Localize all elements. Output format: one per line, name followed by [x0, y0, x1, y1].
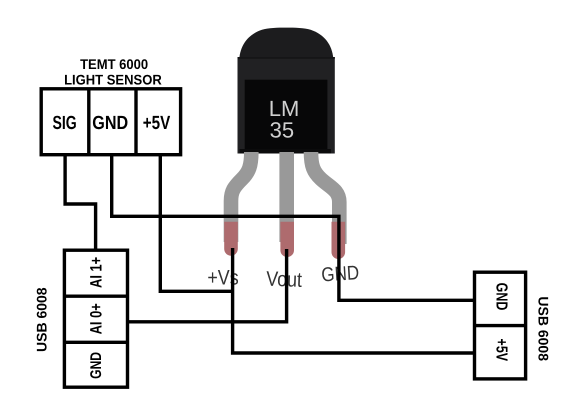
svg-text:GND: GND	[88, 352, 105, 379]
label TEMT 6000 LIGHT SENSOR title	[64, 56, 162, 87]
USB 6008 left block	[64, 250, 127, 387]
wire TEMT +5V joins +Vs wire	[160, 155, 232, 292]
svg-text:USB 6008: USB 6008	[536, 296, 552, 361]
LM35 bottom bar	[240, 149, 332, 154]
svg-text:+5V: +5V	[492, 339, 509, 362]
svg-text:USB 6008: USB 6008	[34, 287, 50, 352]
svg-text:35: 35	[270, 117, 294, 142]
LM35 leg 2 (Vout)	[279, 152, 294, 242]
svg-text:SIG: SIG	[52, 113, 76, 134]
LM35 leg 3 (GND)	[311, 152, 339, 244]
svg-text:Vout: Vout	[266, 268, 303, 292]
wire Vout pin to AI0+	[128, 249, 287, 322]
LM35 dome	[239, 28, 333, 59]
svg-text:GND: GND	[492, 283, 509, 311]
svg-text:TEMT 6000: TEMT 6000	[80, 56, 148, 72]
leg 3 red tip	[332, 222, 346, 259]
leg 2 red tip	[280, 222, 294, 257]
LM35 leg 1 (+Vs)	[231, 152, 251, 242]
svg-text:+5V: +5V	[143, 113, 171, 134]
wire SIG to AI1+	[65, 155, 96, 251]
wire TEMT GND to USB GND (via LM35 GND leg)	[112, 155, 475, 301]
LM35 body	[238, 28, 335, 154]
TEMT6000 sensor block	[41, 89, 180, 155]
leg 1 red tip	[224, 222, 238, 256]
LM35 seam	[238, 57, 335, 59]
svg-text:LIGHT SENSOR: LIGHT SENSOR	[64, 71, 162, 87]
USB 6008 right block	[475, 272, 526, 379]
svg-text:AI 0+: AI 0+	[88, 303, 106, 334]
wire +Vs pin to USB +5V	[233, 248, 475, 353]
LM35 text	[269, 96, 300, 142]
svg-text:AI 1+: AI 1+	[88, 257, 106, 288]
LM35 front face	[245, 80, 328, 150]
svg-text:GND: GND	[92, 113, 128, 134]
